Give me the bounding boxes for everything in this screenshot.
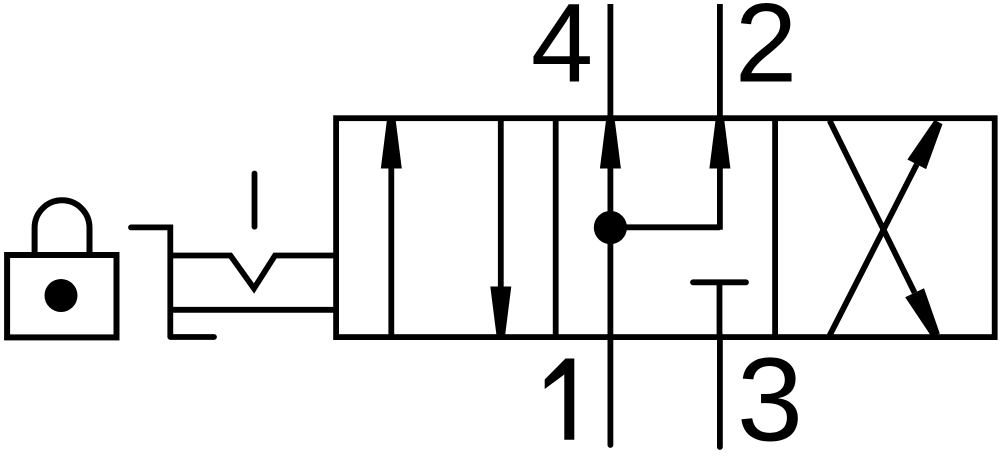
svg-text:3: 3	[737, 334, 803, 457]
svg-text:2: 2	[735, 0, 797, 106]
svg-text:4: 4	[531, 0, 593, 106]
